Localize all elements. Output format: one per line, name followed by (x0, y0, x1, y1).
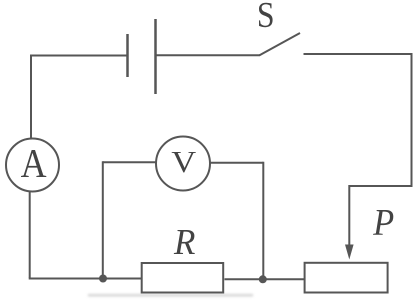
label P (rheostat) (373, 210, 393, 235)
wire resistor R to rheostat P (225, 278, 305, 280)
battery B1 negative plate (short bar) (126, 34, 129, 77)
wire bottom-left horizontal (to resistor R) (29, 278, 142, 280)
wire voltmeter left branch vertical (102, 161, 104, 278)
rheostat P wiper arrow shaft (348, 185, 350, 247)
wire right vertical (top-right corner down) (411, 53, 413, 186)
label R (resistor) (174, 230, 195, 254)
label S (switch) (259, 3, 273, 27)
ammeter A1 body (6, 139, 59, 192)
resistor R body (142, 263, 224, 293)
voltmeter V1 body (156, 137, 210, 191)
junction node left (R / voltmeter branch) (99, 275, 107, 283)
junction node right (R / voltmeter branch) (259, 275, 267, 283)
label A (ammeter) (21, 150, 46, 177)
wire voltmeter right lead (210, 162, 264, 164)
wire left vertical upper (corner to ammeter) (30, 55, 32, 139)
wire voltmeter right branch vertical (262, 162, 264, 279)
rheostat P wiper arrowhead (345, 245, 354, 260)
rheostat P body (305, 263, 388, 293)
wire top-left horizontal (battery to left corner) (30, 55, 127, 57)
wire jog to wiper arrow (349, 185, 412, 187)
wire ammeter bottom to bottom-left corner (29, 192, 31, 279)
wire voltmeter left lead (103, 161, 157, 163)
switch S blade (open) (260, 33, 301, 55)
battery B1 positive plate (long bar) (154, 19, 157, 94)
wire switch to top-right corner (304, 53, 412, 55)
wire battery to switch (157, 54, 261, 56)
label V (voltmeter) (172, 152, 196, 173)
